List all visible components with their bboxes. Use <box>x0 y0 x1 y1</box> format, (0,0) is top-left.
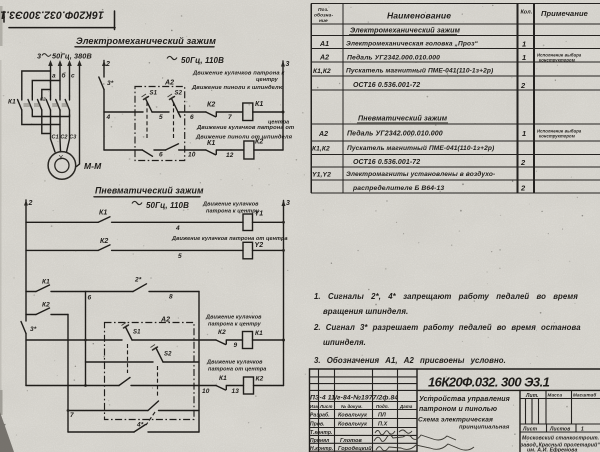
table row OST em <box>353 81 526 90</box>
wire coil K2 pn to right bus <box>254 385 284 387</box>
svg-text:К2: К2 <box>255 139 263 146</box>
svg-text:шпинделя.: шпинделя. <box>323 338 366 347</box>
svg-text:Движение кулачков: Движение кулачков <box>202 202 259 208</box>
svg-text:К1: К1 <box>207 140 215 147</box>
svg-text:Устройства управления: Устройства управления <box>419 395 510 403</box>
svg-text:Подп.: Подп. <box>376 404 389 409</box>
svg-text:ОСТ16 0.536.001-72: ОСТ16 0.536.001-72 <box>353 159 420 166</box>
svg-text:3: 3 <box>286 61 290 68</box>
svg-text:2: 2 <box>105 61 110 68</box>
svg-text:обозна-: обозна- <box>314 12 333 19</box>
svg-text:Лит.: Лит. <box>525 393 539 399</box>
svg-text:Педаль УГ2342.000.010.000: Педаль УГ2342.000.010.000 <box>347 130 443 138</box>
svg-text:Y2: Y2 <box>255 242 264 249</box>
signature scrawls <box>375 431 395 435</box>
svg-text:9: 9 <box>234 342 238 349</box>
table row A2 pn <box>318 129 582 139</box>
relay coil K2 (pn) <box>244 376 264 395</box>
row Y1 wire <box>26 221 98 223</box>
contact 4 <box>46 96 50 115</box>
wire Y1 to right bus <box>253 221 284 223</box>
svg-text:Разраб.: Разраб. <box>310 412 330 419</box>
caption pn Y1 <box>202 202 260 215</box>
pedal switch S2 (em) <box>168 91 183 118</box>
svg-text:А2: А2 <box>319 55 329 62</box>
jumper wire phase A to contact 3 <box>42 90 51 97</box>
svg-text:3: 3 <box>37 52 41 61</box>
table verticals <box>310 4 312 194</box>
svg-text:50Гц, 110В: 50Гц, 110В <box>181 56 224 65</box>
svg-text:патроном и пинолью: патроном и пинолью <box>419 406 497 413</box>
svg-text:П.Х: П.Х <box>378 422 388 428</box>
linkage dashed S2 (em) <box>173 102 175 140</box>
svg-text:Электромеханический зажим: Электромеханический зажим <box>76 36 216 46</box>
phase B line <box>58 60 63 96</box>
pedal switch S1 (pn) <box>105 323 195 341</box>
svg-text:А1: А1 <box>319 41 329 48</box>
output jumper c3 to A <box>42 115 51 134</box>
lit massa masshtab cell <box>519 390 521 452</box>
signature area horizontals <box>310 376 418 378</box>
svg-text:№ докум.: № докум. <box>341 404 363 409</box>
box bottom row left contact (em) <box>135 150 166 159</box>
caption pn K1 <box>205 315 262 328</box>
caption em row1 <box>191 71 285 92</box>
breaker contact 3* on left bus <box>99 77 114 90</box>
limit contact 2* <box>133 277 199 301</box>
long line to motor right <box>77 60 82 167</box>
output jumper c2 to C <box>32 115 69 117</box>
contact 3 <box>38 96 42 115</box>
svg-text:3. Обозначения А1, А2 присво: 3. Обозначения А1, А2 присвоены условно. <box>314 356 506 365</box>
wire Y2 to right bus <box>253 249 284 251</box>
table row K1K2 pn <box>312 144 494 153</box>
svg-text:К2: К2 <box>40 97 46 103</box>
contact 1 <box>18 96 22 115</box>
linkage dashed S1 (pn) <box>127 344 129 373</box>
linkage dashed S1 (em) <box>146 102 148 140</box>
svg-text:S1: S1 <box>133 330 141 336</box>
svg-text:М-М: М-М <box>84 161 102 171</box>
svg-text:конструктором: конструктором <box>539 134 576 139</box>
right bus em with arrow label 3 <box>281 61 290 151</box>
phase C line <box>67 60 72 96</box>
wire coil K1 to right bus <box>253 111 283 113</box>
svg-text:Y1,Y2: Y1,Y2 <box>312 172 331 179</box>
svg-text:Масштаб: Масштаб <box>573 392 596 398</box>
svg-text:центра: центра <box>268 120 289 126</box>
svg-text:50Гц, 110В: 50Гц, 110В <box>146 201 189 210</box>
svg-text:ОСТ16 0.536.001-72: ОСТ16 0.536.001-72 <box>353 82 420 89</box>
table row Y1Y2 line2 <box>352 184 526 193</box>
motor terminal wire 1 <box>51 115 56 152</box>
S1 feed wire from bus <box>26 339 105 341</box>
lower wire to box bottom row <box>104 149 135 151</box>
svg-text:5: 5 <box>178 253 182 260</box>
svg-text:патрона к центру: патрона к центру <box>208 322 262 328</box>
right bus pn lower part <box>283 340 285 386</box>
table horizontals <box>311 3 600 5</box>
svg-text:Движение кулачков: Движение кулачков <box>205 315 262 321</box>
relay coil K2 (em) <box>244 139 264 160</box>
svg-text:S1: S1 <box>150 91 158 97</box>
svg-text:Y1: Y1 <box>255 211 264 218</box>
svg-text:А2: А2 <box>160 317 170 324</box>
svg-text:2: 2 <box>520 184 526 193</box>
svg-text:5: 5 <box>159 114 163 121</box>
svg-text:К2: К2 <box>100 238 108 245</box>
contact 6 <box>65 96 69 115</box>
svg-text:1: 1 <box>522 53 526 62</box>
wire S2 out of box, node 6 <box>178 112 206 121</box>
svg-text:4: 4 <box>175 225 180 232</box>
table row Y1Y2 <box>312 170 495 179</box>
table row: section em title <box>349 26 461 35</box>
svg-text:Электромагниты установлены в: Электромагниты установлены в воздухо- <box>346 170 495 178</box>
svg-text:Пров.: Пров. <box>310 422 325 428</box>
svg-text:К1: К1 <box>8 99 16 106</box>
pedal unit box A2 (em) <box>135 80 185 161</box>
svg-text:вращения шпинделя.: вращения шпинделя. <box>323 307 408 316</box>
svg-text:а: а <box>52 73 56 80</box>
table row A1 <box>319 40 526 49</box>
svg-text:К2: К2 <box>256 376 264 383</box>
svg-text:Ковальчук: Ковальчук <box>338 422 368 428</box>
svg-text:К1,К2: К1,К2 <box>313 68 331 75</box>
svg-text:1: 1 <box>522 40 526 49</box>
svg-text:8: 8 <box>169 294 173 301</box>
table row OST pn <box>353 158 526 167</box>
svg-text:Принял: Принял <box>310 438 330 444</box>
caption em row2 <box>195 120 294 141</box>
motor M circles <box>48 152 76 180</box>
row: K2 contact branch <box>26 302 68 315</box>
svg-text:Изм Лист: Изм Лист <box>310 404 333 409</box>
caption pn K2 <box>206 360 266 373</box>
svg-text:Движение кулачков патрона о: Движение кулачков патрона от центра <box>171 236 288 242</box>
svg-text:6: 6 <box>88 295 92 302</box>
solenoid coil Y2 <box>243 242 263 259</box>
control supply label ~50Hz 110V <box>167 56 177 59</box>
svg-text:3*: 3* <box>107 80 114 87</box>
wire coil K1 pn to right bus <box>253 339 284 341</box>
svg-text:10: 10 <box>188 152 196 159</box>
scan smudge left edge top <box>0 6 3 46</box>
supply label ~50Hz 110V <box>132 201 142 204</box>
pedal switch S2 (pn) <box>105 345 200 363</box>
svg-text:Электромеханический зажим: Электромеханический зажим <box>350 26 461 35</box>
box bottom row right contact (em) <box>166 144 206 159</box>
svg-text:К2: К2 <box>207 102 215 109</box>
motor terminal wire 2 <box>59 115 62 151</box>
svg-text:Пневматический зажим: Пневматический зажим <box>358 114 448 123</box>
svg-text:16К20Ф.032.300Э3.1: 16К20Ф.032.300Э3.1 <box>0 9 104 21</box>
svg-text:1: 1 <box>522 129 526 138</box>
wire coil K2 to right bus <box>254 149 283 151</box>
right bus pn with arrow label 3 <box>282 200 291 340</box>
svg-text:К1: К1 <box>99 210 107 217</box>
svg-text:Дата: Дата <box>399 404 413 409</box>
pedal unit box A2 (pn) <box>105 317 195 420</box>
table row: section pn title <box>357 114 448 123</box>
output jumper c1 to B <box>22 115 60 125</box>
svg-text:К1: К1 <box>42 279 50 286</box>
svg-text:Y: Y <box>59 155 64 162</box>
stamp underline <box>9 27 115 29</box>
relay coil K1 (em) <box>243 101 264 121</box>
svg-text:Масса: Масса <box>548 393 563 398</box>
svg-text:13: 13 <box>232 388 240 395</box>
svg-text:Поз.: Поз. <box>318 7 329 13</box>
svg-text:распределителе Б В64-13: распределителе Б В64-13 <box>352 184 444 192</box>
svg-text:А2: А2 <box>318 131 328 138</box>
linkage dashed S2 (pn) <box>157 366 159 398</box>
svg-text:Т.контр.: Т.контр. <box>310 430 333 436</box>
motor terminal wire 3 <box>67 115 70 152</box>
svg-text:Пускатель магнитный ПМЕ-041(: Пускатель магнитный ПМЕ-041(110-1з+2р) <box>346 67 493 75</box>
svg-text:2*: 2* <box>134 277 142 284</box>
wire 7 to coil K1 <box>231 111 243 113</box>
svg-text:2: 2 <box>28 200 33 207</box>
svg-text:10: 10 <box>202 388 210 395</box>
number field bottom line <box>417 389 600 391</box>
svg-text:им. А.И. Ефремова: им. А.И. Ефремова <box>527 447 577 452</box>
signature area verticals <box>318 369 320 452</box>
svg-text:Примечание: Примечание <box>541 9 588 18</box>
relay contact K2 (row 9) <box>194 329 243 349</box>
svg-text:патрона от центра: патрона от центра <box>208 367 266 373</box>
svg-text:К1,К2: К1,К2 <box>312 146 330 153</box>
svg-text:Движение пиноли к шпинделю: Движение пиноли к шпинделю <box>191 85 284 91</box>
left bus pn with arrow label 2 <box>24 200 33 321</box>
relay contact K2 (row Y2) <box>98 238 243 260</box>
contact 2 <box>28 96 32 115</box>
svg-text:2. Сигнал 3* разрешает рабо: 2. Сигнал 3* разрешает работу педалей во… <box>313 323 581 332</box>
svg-text:С1 С2 С3: С1 С2 С3 <box>52 135 77 141</box>
svg-text:50Гц, 380В: 50Гц, 380В <box>52 52 92 61</box>
bottom row 4* contact <box>68 422 199 433</box>
row 6: K1 contact to node 6 and 2* <box>26 279 133 302</box>
scan smudge bottom-left corner <box>0 412 14 452</box>
svg-text:Пускатель магнитный ПМЕ-041(: Пускатель магнитный ПМЕ-041(110-1з+2р) <box>347 144 494 152</box>
svg-text:принципиальная: принципиальная <box>459 425 510 431</box>
svg-text:Н.контр.: Н.контр. <box>310 446 333 452</box>
row 7: box bottom contact <box>67 401 199 419</box>
svg-text:Ковальчук: Ковальчук <box>338 413 368 419</box>
pn left bus lower <box>25 334 27 386</box>
relay contact K2 (em top row) <box>206 102 232 122</box>
svg-text:центру: центру <box>256 77 279 83</box>
relay contact K1 (row Y1) <box>98 210 243 233</box>
linkage dashed to 4* <box>146 412 155 425</box>
row 10: wire from left bus through pedal contact, relay contact K1 <box>26 375 244 395</box>
svg-text:3*: 3* <box>30 326 37 333</box>
svg-text:К1: К1 <box>219 375 227 382</box>
vertical x68 down <box>67 315 69 433</box>
svg-text:конструктором: конструктором <box>539 58 576 63</box>
wire S1 to S2 with node 5 <box>152 112 169 121</box>
contact 5 <box>56 96 60 115</box>
svg-text:7: 7 <box>70 412 74 419</box>
table row A2 <box>319 53 582 63</box>
table row K1K2 em <box>313 67 493 76</box>
svg-text:1. Сигналы 2*, 4* запрещают: 1. Сигналы 2*, 4* запрещают работу педал… <box>314 292 578 301</box>
svg-text:7: 7 <box>228 114 232 121</box>
solenoid coil Y1 <box>243 211 263 231</box>
svg-text:К2: К2 <box>42 302 50 309</box>
svg-text:К1: К1 <box>255 330 263 337</box>
wire 12 to coil K2 <box>231 149 244 151</box>
svg-text:К2: К2 <box>218 329 226 336</box>
svg-text:Московский станкостроит.: Московский станкостроит. <box>522 435 599 442</box>
svg-text:А2: А2 <box>164 80 174 87</box>
svg-text:Электромеханическая головка: Электромеханическая головка „Проз“ <box>346 41 479 48</box>
stamp left bracket <box>3 12 5 23</box>
S2 feed wire <box>86 361 105 363</box>
table header texts <box>314 7 588 24</box>
jumper wire phase A to contact 1 <box>22 71 51 96</box>
phase A line <box>48 60 53 96</box>
relay contact K1 (em bottom row) <box>206 140 234 159</box>
pedal switch S1 (em) <box>135 91 158 113</box>
row Y2 wire <box>26 249 98 251</box>
svg-text:Наименование: Наименование <box>387 11 451 21</box>
breaker contact 3* on pn left bus <box>21 322 37 334</box>
svg-text:Кол.: Кол. <box>521 10 533 16</box>
svg-text:2: 2 <box>520 81 526 90</box>
stamp right bracket <box>114 11 116 30</box>
jumper wire phase B to contact 2 <box>32 81 60 97</box>
svg-text:Пневматический зажим: Пневматический зажим <box>95 186 204 196</box>
mechanical link marks <box>24 104 69 106</box>
svg-text:12: 12 <box>226 152 234 159</box>
outer border <box>310 368 600 370</box>
svg-text:S2: S2 <box>164 352 172 358</box>
svg-text:4: 4 <box>106 114 111 121</box>
svg-text:Схема электрическая: Схема электрическая <box>418 417 493 424</box>
svg-text:ние: ние <box>319 19 328 24</box>
svg-text:3: 3 <box>286 200 290 207</box>
svg-text:Глотов: Глотов <box>340 438 363 444</box>
svg-text:с: с <box>71 73 75 80</box>
svg-text:Педаль УГ2342.000.010.000: Педаль УГ2342.000.010.000 <box>347 54 440 62</box>
vertical from node 6 down <box>85 292 87 386</box>
svg-text:6: 6 <box>159 152 163 159</box>
left bus em with arrow, label 2 <box>102 61 110 78</box>
svg-text:Движение кулачков: Движение кулачков <box>206 360 263 366</box>
vertical from 2* row down <box>198 292 200 433</box>
svg-text:Движение кулачков патрона о: Движение кулачков патрона от <box>196 125 294 131</box>
svg-text:Городецкий: Городецкий <box>338 445 372 452</box>
left bus lower part <box>103 90 105 151</box>
relay coil K1 (pn) <box>243 330 264 349</box>
svg-text:6: 6 <box>190 114 194 121</box>
svg-text:2: 2 <box>520 158 526 167</box>
svg-text:S2: S2 <box>175 91 183 97</box>
svg-text:К1: К1 <box>255 101 263 108</box>
svg-text:Движение кулачков патрона к: Движение кулачков патрона к <box>192 71 285 77</box>
svg-text:ПЛ: ПЛ <box>378 413 386 419</box>
node 4 wire to box <box>104 112 135 121</box>
stamp text 16К20Ф.032.300Э3.1 (rotated 180) <box>0 9 104 21</box>
